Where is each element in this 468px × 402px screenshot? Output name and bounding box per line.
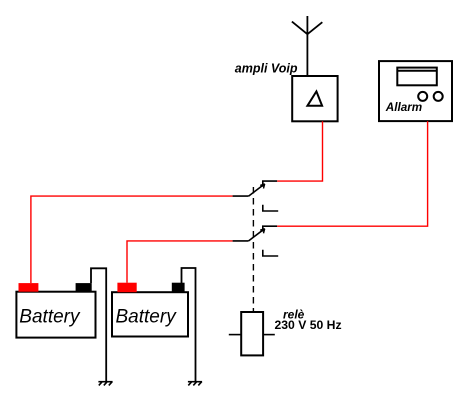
wire battery1 negative to ground — [91, 268, 106, 381]
wire battery1 positive (red) — [31, 196, 233, 283]
alarm unit box — [379, 61, 452, 121]
amplifier U1 box — [292, 76, 337, 121]
svg-text:Allarm: Allarm — [385, 101, 422, 114]
svg-text:ampli Voip: ampli Voip — [235, 61, 298, 75]
antenna ANT1 — [292, 16, 322, 76]
ground G1 — [98, 382, 112, 386]
svg-text:230 V 50 Hz: 230 V 50 Hz — [275, 318, 342, 332]
ground G2 — [188, 382, 202, 386]
battery BT2 negative terminal (black) — [172, 283, 185, 293]
wire amplifier output (red) — [277, 121, 322, 181]
wire battery2 negative to ground — [182, 268, 196, 382]
relay K1 coil box — [241, 312, 263, 355]
wire alarm supply (red) — [277, 121, 428, 226]
svg-text:Battery: Battery — [19, 306, 81, 327]
relay K1 right terminal stub — [263, 334, 275, 336]
switch S2 pole lead — [233, 240, 249, 242]
battery BT2 case — [112, 292, 188, 336]
battery BT2 positive terminal (red) — [117, 283, 136, 293]
alarm indicator lamp left — [418, 92, 427, 101]
battery BT1 positive terminal (red) — [19, 283, 39, 292]
switch S2 lower throw contact — [263, 250, 278, 256]
switch S1 lower throw contact — [263, 205, 278, 211]
battery BT1 case — [16, 292, 95, 338]
alarm display window — [397, 68, 437, 86]
relay actuation dashed link — [252, 187, 254, 312]
battery BT1 negative terminal (black) — [76, 283, 92, 292]
switch S2 lever — [249, 229, 265, 241]
switch S1 pole lead — [233, 195, 249, 197]
alarm indicator lamp right — [434, 92, 443, 101]
switch S2 upper throw contact — [263, 226, 277, 231]
amplifier U1 triangle symbol — [307, 91, 322, 105]
svg-text:Battery: Battery — [116, 306, 178, 327]
wire battery2 positive (red) — [127, 241, 233, 283]
relay K1 left terminal stub — [229, 334, 241, 336]
switch S1 upper throw contact — [263, 181, 277, 187]
switch S1 lever — [249, 184, 265, 196]
